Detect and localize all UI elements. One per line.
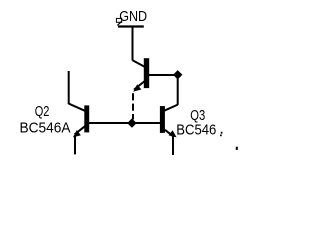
transistor Q3 emitter arrow [169,130,177,137]
transistor Q1 base bar [144,58,149,88]
dashed wire Q1 emitter to dot2 [132,93,134,119]
wire dot1 down to Q3 collector [177,79,179,105]
svg-text:Q2: Q2 [35,104,50,120]
wire GND to Q1 collector [132,27,134,61]
transistor Q3 emitter diagonal [165,130,174,137]
svg-text:BC546A: BC546A [20,121,71,137]
wire Q3 emitter down [172,137,174,156]
wire Q1 collector diagonal [133,60,146,67]
svg-text:GND: GND [119,9,147,25]
node junction dot 1 [173,70,182,79]
node junction dot 2 [127,118,136,127]
wire Q2 emitter down [74,136,76,154]
transistor Q2 base bar [84,105,89,132]
wire base Q2 to Q3 [89,122,160,124]
wire Q2 collector diagonal [69,104,86,112]
stray dot bottom right [236,147,238,150]
wire Q2 collector stub [68,71,70,104]
transistor Q2 emitter arrow [73,130,81,137]
ground bar [118,25,144,27]
clipped character mark after BC546 [220,132,223,136]
transistor Q1 emitter arrow [133,84,141,91]
power port origin mark [116,18,121,25]
transistor Q3 base bar [160,106,165,133]
wire Q1 base [149,74,175,76]
wire Q3 collector diagonal [164,105,178,111]
svg-text:Q3: Q3 [190,108,205,124]
transistor Q1 emitter diagonal [134,81,145,90]
svg-text:BC546: BC546 [176,123,216,139]
transistor Q2 emitter diagonal [75,126,85,134]
